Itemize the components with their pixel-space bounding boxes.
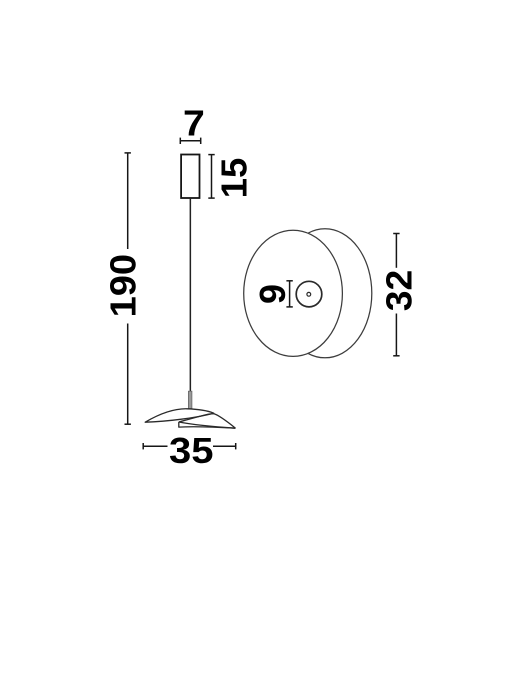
dimension line 35 (shade width, broken for label) [143,443,236,449]
hub circle [296,281,322,307]
svg-text:15: 15 [214,158,255,199]
shade upper leaf outline (left petal) [145,409,214,422]
svg-text:9: 9 [252,284,293,304]
shade fills (white bodies of both petals) [145,409,235,428]
front disc (front ellipse of top view) [244,230,343,356]
dimension line 15 (canopy height) [208,155,214,199]
svg-text:35: 35 [169,430,214,471]
hub center ring [307,292,311,296]
svg-text:7: 7 [183,103,205,143]
svg-text:190: 190 [102,254,143,318]
suspension cord [189,198,191,392]
canopy (ceiling cap rectangle) [181,155,199,199]
svg-text:32: 32 [379,270,420,312]
back disc (rear ellipse of top view) [278,229,372,358]
dimension line 32 (disc height, broken for label) [393,234,399,356]
dimension line 7 (canopy width) [180,138,200,144]
cord connector pin [188,391,192,408]
dimension line 9 (hub diameter) [286,281,292,307]
dimension line 190 (overall height, broken for label) [125,153,131,424]
shade lower leaf outline (right petal) [179,414,236,428]
